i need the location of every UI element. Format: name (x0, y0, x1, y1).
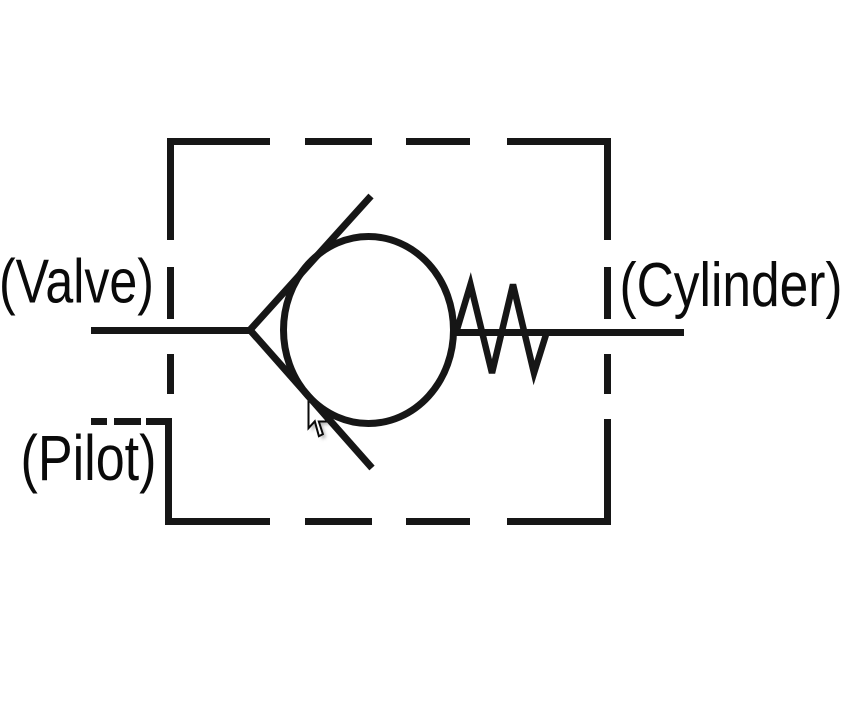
valve port line (91, 327, 250, 334)
mouse cursor (309, 399, 328, 436)
enclosure left dash 3 (167, 354, 174, 394)
check valve ball (circle) (284, 237, 454, 424)
pilot line dash 3 (146, 418, 165, 425)
valve seat lower line (250, 330, 372, 468)
enclosure top dash 2 (305, 138, 372, 145)
svg-text:(Pilot): (Pilot) (21, 422, 157, 494)
svg-text:(Valve): (Valve) (0, 247, 154, 316)
enclosure top-left corner dash (171, 142, 271, 241)
valve seat upper line (250, 196, 371, 330)
enclosure bottom-right corner dash (507, 419, 608, 522)
enclosure bottom dash 2 (305, 518, 372, 525)
enclosure top-right corner dash (507, 142, 608, 241)
spring (456, 285, 547, 374)
enclosure top dash 3 (406, 138, 470, 145)
mouse cursor shadow (312, 402, 331, 439)
cylinder port line (455, 329, 684, 336)
pilot line dash 2 (114, 418, 141, 425)
enclosure bottom-left corner dash (169, 418, 271, 522)
pilot line dash 1 (91, 418, 107, 425)
enclosure left dash 2 (167, 267, 174, 319)
enclosure right dash 2 (604, 267, 611, 319)
svg-text:(Cylinder): (Cylinder) (620, 251, 841, 320)
enclosure bottom dash 3 (406, 518, 470, 525)
enclosure right dash 3 (604, 354, 611, 394)
